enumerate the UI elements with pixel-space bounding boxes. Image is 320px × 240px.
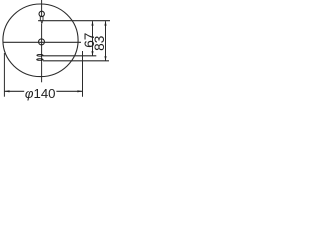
hook latch wedge bbox=[41, 21, 44, 24]
arrow right phi140 bbox=[77, 90, 82, 92]
dimension line 83 bbox=[105, 21, 107, 60]
hook stem left line bbox=[39, 16, 41, 21]
diameter dimension line left segment bbox=[4, 90, 24, 92]
globe outline (fixture body circle) bbox=[3, 4, 78, 77]
dimension line 67 bbox=[92, 21, 94, 56]
hook stem right line bbox=[42, 16, 44, 21]
extension line from disk 2 bbox=[43, 60, 109, 62]
arrow up 67 bbox=[91, 21, 93, 26]
svg-text:φ140: φ140 bbox=[25, 86, 56, 101]
center rod upper segment bbox=[41, 0, 43, 17]
arrow down 83 bbox=[104, 56, 106, 61]
diameter extension line right bbox=[82, 51, 84, 97]
socket disk 2 bbox=[37, 59, 43, 61]
equator line (horizontal diameter) bbox=[3, 41, 82, 43]
center rod lower segment bbox=[41, 24, 43, 83]
extension line from disk 1 bbox=[43, 55, 96, 57]
center mark circle bbox=[39, 39, 45, 45]
socket disk 1 bbox=[37, 54, 43, 56]
arrow up 83 bbox=[104, 21, 106, 26]
hanging hook circle bbox=[39, 11, 44, 16]
arrow down 67 bbox=[91, 51, 93, 56]
diameter dimension line right segment bbox=[56, 90, 82, 92]
diameter extension line left bbox=[3, 53, 5, 97]
arrow left phi140 bbox=[4, 90, 9, 92]
svg-text:83: 83 bbox=[92, 36, 107, 51]
ceiling extension line (top reference) bbox=[38, 20, 110, 22]
